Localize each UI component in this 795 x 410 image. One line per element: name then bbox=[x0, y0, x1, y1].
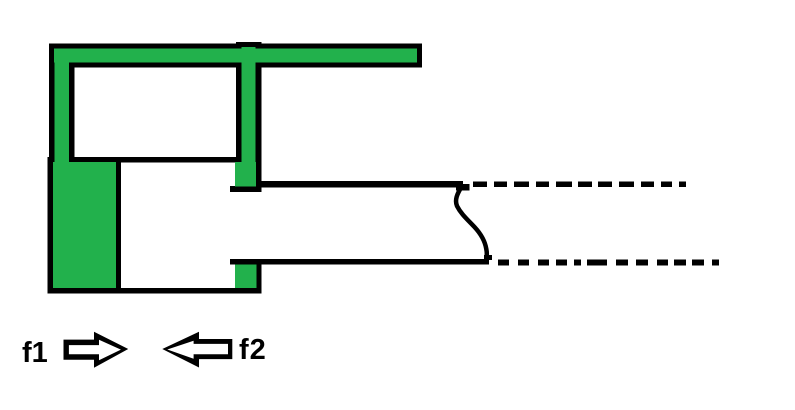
gland column green fill lower bbox=[235, 162, 256, 187]
bottom dashed line bbox=[498, 260, 719, 266]
arrow f1 (pointing right) outer outline bbox=[64, 332, 129, 368]
rod bottom line end tick bbox=[484, 255, 492, 260]
left wall outline bbox=[49, 44, 75, 164]
rod top line end blob bbox=[456, 184, 470, 191]
cylinder bottom line bbox=[48, 288, 262, 294]
top handle bar outline bbox=[49, 44, 422, 68]
arrow f2 (pointing left) outer outline bbox=[162, 332, 232, 368]
end block outline bbox=[48, 157, 122, 294]
gland column outline (vertical column through top bar) bbox=[236, 42, 262, 192]
arrow f2 inner white bbox=[167, 341, 228, 359]
rod break squiggle bbox=[456, 186, 487, 261]
lower gland green fill bbox=[235, 265, 257, 289]
end block green fill bbox=[53, 162, 116, 288]
rod top line bbox=[256, 181, 463, 188]
gland column green fill upper bbox=[242, 47, 256, 162]
svg-text:f2: f2 bbox=[239, 334, 267, 366]
cavity bottom line bbox=[69, 157, 241, 163]
top handle bar green fill bbox=[54, 49, 417, 63]
rod bottom line bbox=[230, 259, 489, 265]
left wall green fill bbox=[55, 49, 70, 163]
gland cap left extension bbox=[230, 186, 238, 192]
lower gland right wall bbox=[256, 259, 262, 294]
svg-text:f1: f1 bbox=[22, 337, 48, 369]
arrow f1 inner white bbox=[69, 340, 121, 360]
top dashed line bbox=[473, 182, 686, 188]
